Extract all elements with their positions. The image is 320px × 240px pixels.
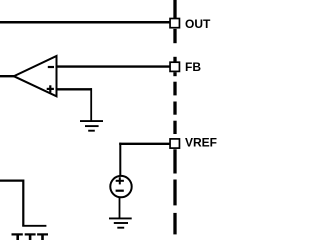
voltage source plus sign (116, 177, 124, 184)
voltage source minus sign (116, 190, 124, 192)
op-amp U1 (error amplifier triangle) (14, 56, 57, 96)
node T2 (cropped symbol, bar with stem) (25, 234, 36, 240)
ground (voltage source) (109, 218, 132, 227)
ground (op-amp non-inverting input) (80, 121, 103, 131)
pin VREF terminal square (170, 139, 179, 148)
svg-text:VREF: VREF (185, 136, 217, 150)
pin OUT terminal square (170, 19, 179, 28)
wire op-amp output (0, 75, 15, 77)
wire VREF net (horizontal from source to VREF pin) (119, 143, 169, 145)
voltage source VREF (circle) (110, 176, 131, 197)
wire FB net (op-amp inverting input to FB pin) (57, 65, 170, 67)
pin FB terminal square (170, 62, 179, 71)
wire (vertical drop to ground) (90, 88, 92, 121)
svg-text:FB: FB (185, 60, 201, 74)
node T1 (cropped symbol, bar with stem) (12, 234, 23, 240)
node T3 (cropped symbol, bar with stem) (37, 234, 48, 240)
wire voltage source to ground (119, 197, 121, 218)
wire dashed boundary line (IC boundary) (173, 0, 176, 234)
op-amp U1 non-inverting input plus sign (47, 85, 54, 92)
wire OUT net (horizontal to OUT pin) (0, 21, 170, 24)
op-amp U1 inverting input minus sign (48, 66, 54, 68)
svg-text:OUT: OUT (185, 17, 211, 31)
wire bottom-left net (horizontal then down) (0, 181, 23, 226)
wire VREF net (vertical down to source) (119, 143, 121, 176)
wire op-amp non-inverting input to ground (57, 88, 93, 90)
wire bottom-left horizontal stub (22, 225, 46, 227)
